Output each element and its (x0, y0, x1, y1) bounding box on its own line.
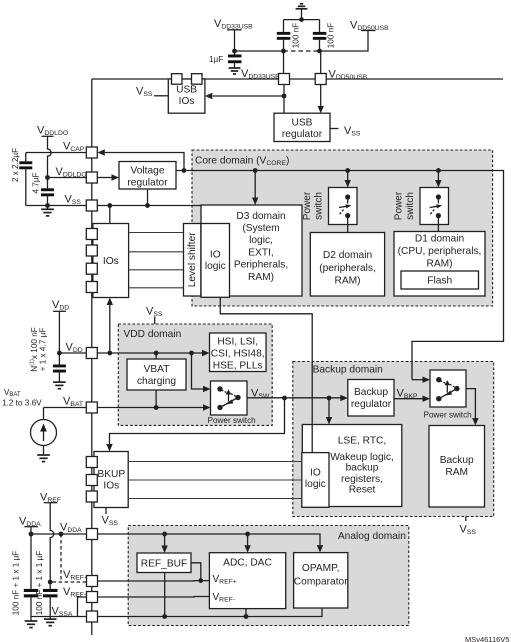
pin VDDA (87, 529, 98, 540)
pin VSS (86, 200, 97, 211)
svg-text:100 nF + 1 x 1 µF: 100 nF + 1 x 1 µF (35, 551, 44, 616)
svg-text:Comparator: Comparator (294, 577, 348, 588)
ground (current source) (37, 455, 50, 462)
wire: VREF drop with hop over VDDA row (50, 503, 54, 582)
svg-text:4.7µF: 4.7µF (32, 172, 41, 193)
wire: VDD row (59, 352, 86, 354)
D1 domain box (394, 232, 485, 297)
svg-text:Power: Power (394, 191, 405, 220)
core domain gray dashed box (192, 150, 493, 306)
wire: VCAP external row (26, 152, 87, 154)
svg-text:regulator: regulator (127, 178, 168, 189)
level shifter box (184, 224, 202, 297)
wire: regulator VSS to VSS row (147, 189, 149, 206)
svg-text:Wakeup logic,: Wakeup logic, (330, 452, 394, 463)
svg-text:+ 1 x 4.7 µF: + 1 x 4.7 µF (39, 328, 48, 372)
svg-text:MSv46116V5: MSv46116V5 (465, 635, 509, 642)
wire: VSSA row to analog blocks (98, 608, 323, 617)
backup domain gray dashed box (293, 362, 494, 517)
ground (VREF cap) (44, 619, 57, 626)
wire: VDD33USB pin to USB IOs / USB regulator (283, 85, 285, 114)
IO logic box (core) (201, 224, 230, 298)
wire: backup switch output to backup RAM (466, 389, 475, 418)
svg-text:HSE, PLLs: HSE, PLLs (213, 361, 263, 372)
wire: VDDA row (31, 533, 87, 535)
svg-text:2 x 2.2µF: 2 x 2.2µF (11, 148, 20, 182)
svg-text:OPAMP,: OPAMP, (302, 563, 340, 574)
svg-text:1µF: 1µF (209, 55, 223, 64)
ADC DAC box (209, 553, 285, 609)
wire: core IO logic drop inside LSE box (311, 425, 313, 453)
svg-text:100 nF + 1 x 1 µF: 100 nF + 1 x 1 µF (12, 551, 21, 616)
voltage regulator box (119, 162, 176, 190)
wire: backup regulator to backup power switch (394, 398, 423, 400)
wire: VREF- tie to VSSA (78, 597, 87, 617)
svg-text:IO: IO (310, 468, 321, 479)
svg-text:Power: Power (302, 191, 313, 220)
wire: VBAT row (44, 407, 87, 409)
HSI/LSI box (210, 333, 267, 372)
pin BKUP 1 (86, 457, 97, 468)
svg-text:IOs: IOs (179, 96, 195, 107)
svg-text:RAM): RAM) (426, 258, 452, 269)
svg-text:HSI, LSI,: HSI, LSI, (217, 337, 258, 348)
OPAMP box (294, 553, 349, 608)
node VBAT left labels (2, 388, 42, 408)
wire: top ground stem (301, 9, 303, 20)
wire: regulator output to VCORE rail (176, 170, 184, 172)
wire: VDDLDO pin to regulator (arrow) (97, 177, 112, 179)
svg-text:backup: backup (346, 462, 379, 473)
svg-text:ADC, DAC: ADC, DAC (223, 558, 272, 569)
pin VREF- (87, 592, 98, 603)
wire: VSS drop to IOs box (109, 206, 111, 224)
wire: VDDA arrow to REF_BUF (164, 534, 166, 546)
LSE RTC box (302, 425, 402, 507)
svg-text:1.2 to 3.6V: 1.2 to 3.6V (2, 399, 42, 408)
wire: VDDA drop (30, 527, 32, 534)
pin VBAT (86, 402, 97, 413)
pin IO 3 (86, 263, 97, 274)
wire: VDD to power switch upper input (192, 353, 204, 389)
svg-text:regulator: regulator (351, 399, 392, 410)
svg-text:switch: switch (314, 192, 325, 220)
wire: VREF- row to ADC (98, 596, 210, 599)
svg-text:logic: logic (205, 261, 226, 272)
ground (VDD cap) (53, 382, 66, 389)
svg-text:VDD domain: VDD domain (124, 329, 182, 340)
wire: VSS row (26, 205, 87, 207)
capacitor 1uF (209, 55, 242, 68)
svg-text:(System: (System (242, 223, 279, 234)
pin USB IO (left) (172, 74, 183, 85)
capacitor (VDDA decoupling) (12, 534, 39, 621)
svg-text:(CPU, peripherals,: (CPU, peripherals, (398, 246, 482, 257)
wire: VDDLDO row to pin (48, 177, 87, 179)
pin VREF+ (87, 576, 98, 587)
svg-text:registers,: registers, (341, 474, 383, 485)
capacitor (VREF decoupling) (35, 551, 57, 619)
capacitor 2x2.2uF (11, 148, 32, 206)
svg-text:D1 domain: D1 domain (415, 234, 464, 245)
pin VDDLDO (86, 172, 97, 183)
Flash box (401, 271, 479, 289)
svg-text:IOs: IOs (103, 256, 119, 267)
wire: VDD50USB pin drop (320, 51, 321, 74)
svg-text:Level shifter: Level shifter (187, 232, 198, 288)
node VSS (USB regulator) (330, 125, 361, 138)
wire: dashed link between 100nF bottoms (284, 50, 320, 52)
wire: VDDA arrow to ADC (247, 534, 249, 546)
wire: BKUP IOs to backup IO logic lines (128, 462, 302, 499)
wire: REF_BUF VSS (164, 573, 166, 617)
junction VSS/4.7uF (45, 203, 50, 208)
node VSS (BKUP IOs) (102, 508, 119, 528)
wire: VCORE rail across core domain (184, 171, 504, 380)
wire: 100nF top link (284, 19, 320, 21)
wire: REF_BUF output to VREF+ line (191, 563, 201, 581)
capacitor 4.7uF (32, 172, 54, 205)
capacitor C 100nF (left) (277, 20, 301, 51)
svg-text:USB: USB (176, 85, 197, 96)
wire: VCORE into backup power switch upper input (412, 379, 423, 381)
junctions on y=51 (232, 49, 237, 54)
VBAT charging box (127, 359, 186, 390)
wire: VDD to VBAT charging (155, 353, 157, 359)
wire: VDDA row into analog domain (98, 534, 321, 545)
wire: core IO logic to backup IO logic (220, 297, 312, 452)
power switch (D2) (302, 168, 357, 232)
power switch (D1) (394, 168, 449, 231)
wire: VREF+ row to ADC (98, 580, 210, 582)
ground (1uF) (229, 68, 241, 74)
pin VDD (86, 348, 97, 359)
current source (battery) (31, 408, 57, 455)
node VSS (USB IOs) (136, 86, 168, 99)
wire: VDDLDO drop with hop over VCAP wire (48, 136, 52, 177)
svg-text:Backup: Backup (354, 387, 388, 398)
USB IOs box (168, 79, 205, 113)
pin IO 1 (86, 229, 97, 240)
wire: top VDD50USB rail (92, 78, 503, 80)
svg-text:RAM): RAM) (334, 275, 360, 286)
BKUP IOs box (94, 452, 128, 508)
svg-text:D3 domain: D3 domain (236, 211, 285, 222)
node VSS label above VDD domain (146, 306, 163, 325)
wire: VSS row right to D3 (97, 205, 201, 207)
wire: VBAT rail to power switch lower input (97, 407, 203, 409)
node VDD33USB supply label (top) (214, 18, 253, 31)
wire: VDD50USB pin to USB regulator (arrow) (320, 85, 322, 107)
pin IO 2 (86, 245, 97, 256)
pin BKUP 2 (86, 475, 97, 486)
svg-text:regulator: regulator (282, 129, 323, 140)
svg-text:logic,: logic, (249, 235, 273, 246)
pin USB IO (right) (192, 74, 203, 85)
ground (4.7uF / VSS) (41, 206, 54, 216)
wire: 1uF junction to left 100nF (235, 50, 284, 52)
svg-text:D2 domain: D2 domain (323, 250, 372, 261)
IOs box (93, 224, 129, 298)
svg-text:BKUP: BKUP (97, 469, 125, 480)
svg-text:CSI, HSI48,: CSI, HSI48, (211, 349, 265, 360)
pin VCAP (86, 147, 97, 158)
svg-text:Backup: Backup (440, 455, 474, 466)
REF_BUF box (137, 553, 191, 573)
wire: VCORE to VCAP pin (arrow left) (105, 153, 184, 171)
wire: IOs to level shifter lines (129, 233, 184, 288)
node VDD50USB supply label (top) (350, 20, 389, 33)
node VDDA supply label (19, 516, 41, 529)
junction (299, 17, 304, 22)
svg-text:charging: charging (137, 376, 176, 387)
wire: VSSA row left (31, 616, 87, 618)
wire: ADC VSS (245, 609, 247, 617)
pin VSSA (87, 611, 98, 622)
pin BKUP 3 (86, 491, 97, 502)
ground (VDDA cap) (25, 621, 38, 628)
power switch (VDD/VBAT) (208, 381, 257, 425)
analog domain gray dashed box (128, 526, 409, 626)
pin VDD33USB (279, 74, 290, 85)
svg-text:100 nF: 100 nF (292, 23, 301, 49)
power switch (backup) (424, 370, 473, 420)
svg-text:USB: USB (292, 118, 313, 129)
svg-text:RAM: RAM (445, 467, 468, 478)
svg-text:Peripherals,: Peripherals, (234, 260, 288, 271)
backup regulator box (348, 380, 394, 417)
svg-text:IO: IO (210, 250, 221, 261)
backup RAM box (429, 426, 485, 508)
D3 domain box (201, 205, 302, 296)
svg-text:Voltage: Voltage (131, 166, 165, 177)
wire: VCORE arrow down into D3 (252, 168, 258, 205)
svg-text:switch: switch (405, 192, 416, 220)
wire: VSW to BKUP IOs (110, 398, 285, 445)
capacitor C 100nF (right) (313, 20, 336, 51)
node VREF supply label (40, 492, 61, 505)
wire: dashed VDDA to VREF+ option (53, 534, 87, 582)
wire: right 100nF to VDD50USB label drop (320, 31, 369, 52)
capacitor Nx100nF+4.7uF (30, 327, 66, 381)
svg-text:100 nF: 100 nF (327, 23, 336, 49)
node VDD supply label (left) (52, 299, 69, 312)
VDD domain gray dashed box (118, 324, 272, 425)
wire: VBAT charging to VBAT rail (155, 390, 157, 408)
IO logic box (backup) (302, 453, 329, 508)
wire: VDD feed arrow up into IOs bottom (109, 305, 111, 354)
junction VDDLDO row (45, 175, 50, 180)
svg-text:RAM): RAM) (248, 272, 274, 283)
svg-text:Power switch: Power switch (424, 411, 473, 420)
svg-text:Backup domain: Backup domain (313, 365, 383, 376)
node VDDLDO supply label (top-left) (37, 125, 68, 138)
D2 domain box (310, 233, 384, 297)
wire: VDD rail into VDD domain (97, 352, 202, 354)
pin VDD50USB (315, 74, 326, 85)
svg-text:Power switch: Power switch (208, 416, 257, 425)
wire: VSW output (247, 397, 341, 399)
svg-text:REF_BUF: REF_BUF (141, 559, 187, 570)
wire: VDD33USB drop (234, 30, 236, 55)
wire: VSW down to LSE block (328, 398, 330, 417)
wire: left main rail (91, 79, 93, 635)
svg-text:Analog domain: Analog domain (338, 531, 406, 542)
svg-text:Reset: Reset (349, 484, 376, 495)
USB regulator box (274, 113, 330, 141)
pin IO 4 (86, 282, 97, 293)
node VSS (backup domain) (460, 517, 477, 537)
wire: VDD drop (58, 311, 60, 353)
ground (top, inverted) (296, 4, 308, 9)
svg-text:LSE, RTC,: LSE, RTC, (338, 435, 387, 446)
svg-text:Flash: Flash (427, 276, 452, 287)
svg-text:(peripherals,: (peripherals, (319, 263, 376, 274)
wire: VDD33USB pin drop from cap row (283, 51, 285, 74)
svg-text:VBAT: VBAT (144, 364, 170, 375)
svg-text:logic: logic (305, 479, 326, 490)
svg-text:EXTI,: EXTI, (248, 247, 273, 258)
svg-text:IOs: IOs (103, 481, 119, 492)
